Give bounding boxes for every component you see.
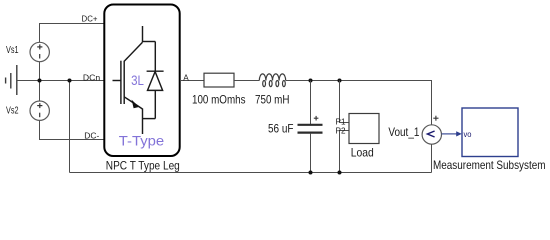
voltage source Vs2 <box>30 101 49 120</box>
ground <box>6 65 17 95</box>
signal arrow voltmeter to subsystem <box>442 133 458 135</box>
svg-text:DCn: DCn <box>83 73 101 83</box>
node junction dot DCn x Vs chain <box>38 79 42 83</box>
svg-text:Vs1: Vs1 <box>6 44 19 56</box>
svg-text:Measurement Subsystem: Measurement Subsystem <box>433 158 546 172</box>
svg-text:DC-: DC- <box>84 131 99 141</box>
block Load <box>349 114 379 144</box>
svg-text:T-Type: T-Type <box>119 132 165 148</box>
svg-text:Vs2: Vs2 <box>6 105 19 117</box>
wire Vs1 to Vs2 vertical <box>39 62 41 101</box>
inductor L 750 mH <box>259 74 285 87</box>
node junction dot load bottom <box>338 171 342 175</box>
voltmeter chevron glyph <box>427 131 434 137</box>
svg-text:vo: vo <box>464 129 472 139</box>
transistor Q1 emitter arrowhead <box>132 100 139 109</box>
wire capacitor top lead <box>310 81 312 125</box>
svg-text:56 uF: 56 uF <box>268 121 294 135</box>
node A output wire <box>180 80 204 82</box>
svg-text:Vout_1: Vout_1 <box>388 125 419 139</box>
block Measurement Subsystem <box>462 108 518 157</box>
svg-text:3L: 3L <box>131 73 144 88</box>
wire DC- from Vs2 bottom to NPC block <box>40 120 105 139</box>
svg-text:P2: P2 <box>336 126 346 136</box>
resistor R 100 mOmhs <box>204 73 234 87</box>
svg-text:100 mOmhs: 100 mOmhs <box>192 93 246 107</box>
capacitor C 56 uF <box>298 125 323 133</box>
svg-text:NPC T Type Leg: NPC T Type Leg <box>106 158 180 172</box>
diode D1 inside NPC block <box>147 42 164 119</box>
subsystem block NPC T Type Leg (rounded box) <box>104 5 179 157</box>
wire load P1 lead <box>340 81 350 123</box>
node junction dot capacitor bottom <box>309 171 313 175</box>
wire inductor to Vout_1 corner <box>286 81 432 126</box>
node junction dot load tap <box>338 79 342 83</box>
voltmeter plus sign <box>433 116 438 121</box>
voltage source Vs1 <box>30 42 49 61</box>
node junction dot DCn neutral drop <box>68 79 72 83</box>
wire neutral drop from DCn to bottom rail <box>69 81 71 173</box>
svg-text:750 mH: 750 mH <box>255 93 290 107</box>
node junction dot capacitor tap <box>309 79 313 83</box>
svg-text:DC+: DC+ <box>82 14 98 24</box>
svg-text:A: A <box>183 73 189 83</box>
transistor Q1 IGBT inside NPC block <box>113 26 156 134</box>
wire resistor to inductor <box>234 80 259 82</box>
wire DCn horizontal from ground to NPC block <box>17 80 104 82</box>
wire load P2 lead to bottom rail <box>340 131 350 173</box>
wire voltmeter bottom lead <box>431 144 433 172</box>
svg-text:Load: Load <box>351 145 374 159</box>
capacitor polarity plus <box>314 116 319 121</box>
wire bottom rail <box>70 172 432 174</box>
wire capacitor bottom lead <box>310 134 312 173</box>
wire DC+ top rail from Vs1 to NPC block <box>40 24 105 43</box>
voltmeter Vout_1 <box>422 125 441 144</box>
